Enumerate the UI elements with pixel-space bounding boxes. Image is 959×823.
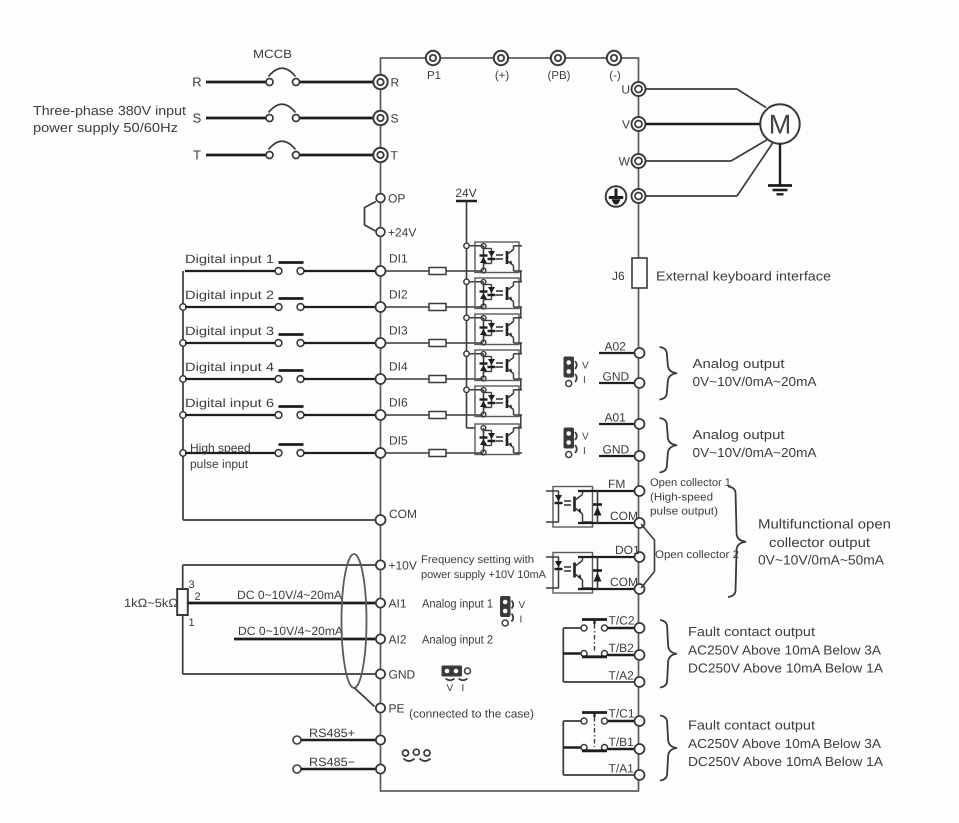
svg-text:A01: A01 [605, 411, 627, 425]
svg-text:V: V [519, 600, 526, 611]
svg-text:Digital input 6: Digital input 6 [185, 396, 274, 410]
svg-text:Analog input 2: Analog input 2 [422, 633, 493, 647]
svg-text:R: R [192, 75, 201, 90]
svg-text:3: 3 [189, 579, 195, 591]
svg-text:A02: A02 [605, 340, 627, 354]
svg-text:T: T [391, 149, 399, 163]
svg-text:(connected to the case): (connected to the case) [409, 709, 534, 721]
svg-text:OP: OP [388, 192, 405, 206]
svg-text:S: S [391, 112, 399, 126]
svg-text:High speed: High speed [190, 441, 251, 455]
svg-text:collector output: collector output [769, 535, 870, 550]
svg-text:DI4: DI4 [389, 360, 408, 374]
svg-text:V: V [622, 118, 630, 132]
svg-text:Three-phase 380V input: Three-phase 380V input [33, 103, 186, 118]
svg-text:0V~10V/0mA~20mA: 0V~10V/0mA~20mA [693, 445, 817, 460]
svg-text:COM: COM [610, 509, 638, 523]
svg-text:M: M [769, 110, 792, 140]
svg-text:COM: COM [389, 507, 417, 521]
svg-text:0V~10V/0mA~50mA: 0V~10V/0mA~50mA [758, 553, 884, 568]
svg-text:DI3: DI3 [389, 324, 408, 338]
svg-text:power supply 50/60Hz: power supply 50/60Hz [33, 120, 178, 135]
svg-text:T/B2: T/B2 [609, 641, 635, 655]
svg-text:I: I [462, 683, 465, 694]
svg-text:GND: GND [603, 370, 630, 384]
svg-text:DI5: DI5 [389, 434, 408, 448]
svg-text:1kΩ~5kΩ: 1kΩ~5kΩ [124, 596, 178, 610]
svg-text:PE: PE [389, 702, 405, 716]
svg-text:DC250V Above 10mA Below 1A: DC250V Above 10mA Below 1A [688, 754, 883, 769]
svg-text:Fault contact output: Fault contact output [688, 624, 815, 639]
svg-text:MCCB: MCCB [253, 47, 292, 61]
svg-text:S: S [193, 111, 202, 126]
svg-text:V: V [582, 432, 589, 443]
svg-text:T/A1: T/A1 [609, 762, 635, 776]
svg-text:W: W [619, 155, 631, 169]
svg-text:T/C1: T/C1 [609, 707, 635, 721]
svg-text:1: 1 [189, 617, 195, 629]
svg-text:2: 2 [195, 591, 201, 603]
svg-text:0V~10V/0mA~20mA: 0V~10V/0mA~20mA [693, 374, 817, 389]
svg-text:GND: GND [389, 668, 416, 682]
svg-text:P1: P1 [427, 70, 441, 82]
svg-text:DI2: DI2 [389, 288, 408, 302]
svg-text:T/C2: T/C2 [609, 614, 635, 628]
svg-text:RS485−: RS485− [309, 755, 355, 769]
svg-text:DO1: DO1 [615, 543, 640, 557]
svg-text:power supply +10V 10mA: power supply +10V 10mA [421, 569, 547, 581]
svg-text:(PB): (PB) [548, 70, 571, 82]
svg-text:Fault contact output: Fault contact output [688, 718, 815, 733]
svg-text:Analog output: Analog output [693, 356, 785, 371]
svg-text:AC250V Above 10mA Below 3A: AC250V Above 10mA Below 3A [688, 736, 881, 751]
svg-text:T/A2: T/A2 [609, 669, 635, 683]
svg-text:DC 0~10V/4~20mA: DC 0~10V/4~20mA [237, 588, 342, 602]
svg-text:Open collector 2: Open collector 2 [655, 549, 739, 561]
svg-text:Frequency setting with: Frequency setting with [421, 554, 534, 566]
svg-text:DI6: DI6 [389, 396, 408, 410]
svg-text:V: V [582, 361, 589, 372]
svg-text:pulse output): pulse output) [650, 506, 718, 518]
svg-text:V: V [447, 683, 454, 694]
svg-text:U: U [621, 83, 630, 97]
svg-text:DC250V Above 10mA Below 1A: DC250V Above 10mA Below 1A [688, 661, 883, 676]
svg-text:+24V: +24V [388, 226, 416, 240]
svg-text:Multifunctional open: Multifunctional open [758, 517, 891, 532]
svg-text:Digital input 4: Digital input 4 [185, 360, 274, 374]
svg-text:DC 0~10V/4~20mA: DC 0~10V/4~20mA [238, 624, 343, 638]
svg-text:Digital input 1: Digital input 1 [185, 252, 274, 266]
svg-text:Digital input 2: Digital input 2 [185, 288, 274, 302]
svg-text:24V: 24V [455, 186, 476, 200]
svg-text:FM: FM [608, 477, 625, 491]
svg-text:pulse input: pulse input [190, 457, 249, 471]
svg-text:+10V: +10V [389, 559, 417, 573]
svg-text:AI1: AI1 [389, 597, 407, 611]
svg-text:Open collector 1: Open collector 1 [650, 477, 731, 489]
svg-text:Digital input 3: Digital input 3 [185, 324, 274, 338]
svg-text:Analog output: Analog output [693, 427, 785, 442]
svg-text:DI1: DI1 [389, 252, 408, 266]
svg-text:I: I [583, 375, 586, 386]
svg-text:RS485+: RS485+ [309, 726, 355, 740]
svg-text:T: T [193, 148, 201, 163]
svg-text:Analog input 1: Analog input 1 [422, 597, 493, 611]
svg-text:T/B1: T/B1 [609, 735, 635, 749]
svg-text:J6: J6 [612, 269, 625, 283]
svg-text:(-): (-) [609, 70, 621, 82]
svg-text:R: R [391, 76, 400, 90]
svg-text:AI2: AI2 [389, 633, 407, 647]
svg-text:I: I [583, 446, 586, 457]
svg-text:COM: COM [610, 575, 638, 589]
svg-text:(+): (+) [495, 70, 510, 82]
svg-text:I: I [520, 615, 523, 626]
svg-text:External keyboard interface: External keyboard interface [656, 269, 831, 284]
svg-text:(High-speed: (High-speed [650, 492, 713, 504]
svg-text:AC250V Above 10mA Below 3A: AC250V Above 10mA Below 3A [688, 643, 881, 658]
svg-text:GND: GND [603, 443, 630, 457]
